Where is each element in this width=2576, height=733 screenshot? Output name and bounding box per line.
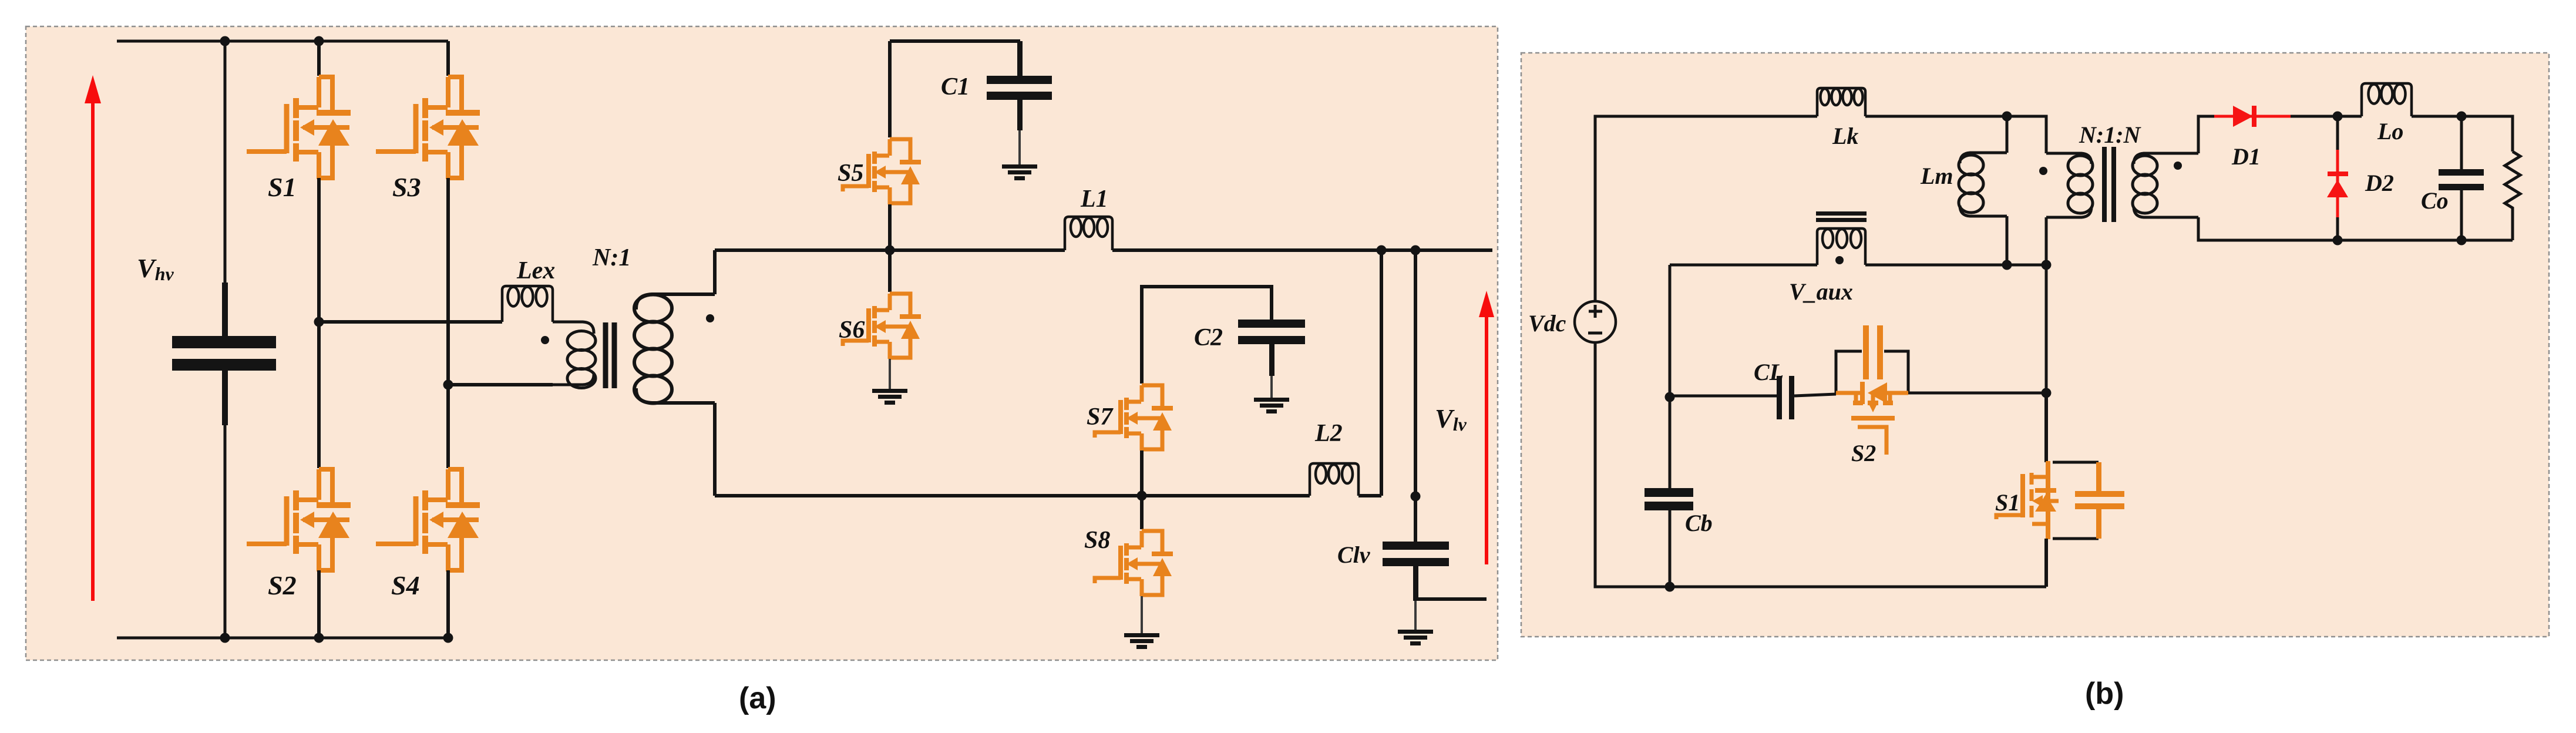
capacitor CL <box>1777 376 1794 419</box>
svg-text:(b): (b) <box>2085 677 2124 711</box>
wire S2 source <box>317 570 321 638</box>
svg-text:S2: S2 <box>268 570 297 600</box>
wire S6 source lead <box>889 359 891 389</box>
transistor S2 loop wires <box>1836 351 1908 394</box>
wire mid node A to Lex <box>319 320 502 324</box>
transformer T1 primary phase dot <box>541 336 549 344</box>
wire S2 right link <box>1908 392 2046 395</box>
node dot primary bottom <box>2042 260 2052 270</box>
capacitor C1 <box>987 41 1052 130</box>
wire C2 ground lead <box>1270 376 1273 398</box>
node dot Co top <box>2457 112 2467 122</box>
wire Co branch bottom <box>2460 190 2463 240</box>
wire Lk to primary <box>1865 116 2046 153</box>
wire Vdc top riser <box>1595 116 1817 301</box>
wire secondary top lead <box>713 250 717 294</box>
svg-text:S5: S5 <box>838 160 863 187</box>
svg-text:L2: L2 <box>1314 420 1343 447</box>
transistor S1 snubber capacitor <box>2075 462 2124 539</box>
wire D2 node to Lo <box>2338 115 2362 118</box>
inductor Lo <box>2362 83 2412 116</box>
svg-text:Lo: Lo <box>2377 118 2403 144</box>
transformer T1 secondary phase dot <box>706 314 714 322</box>
svg-text:Lk: Lk <box>1832 123 1858 149</box>
transformer T2 core <box>2104 147 2114 222</box>
svg-text:C2: C2 <box>1194 324 1223 351</box>
wire Chv rail lower <box>224 371 227 638</box>
inductor L2 <box>1310 463 1358 496</box>
wire CL line <box>1670 394 1836 396</box>
node dot CL tee <box>1665 392 1675 402</box>
wire S8 source lead <box>1141 596 1143 633</box>
node dot Co bottom <box>2457 236 2467 246</box>
transistor S8 <box>1095 531 1173 596</box>
capacitor Clv <box>1383 542 1449 601</box>
wire D1 to D2 node <box>2291 115 2338 118</box>
resistor Ro <box>2505 152 2520 240</box>
inductor Lex <box>502 286 553 322</box>
svg-text:C1: C1 <box>941 73 970 100</box>
transistor S4 <box>376 469 480 571</box>
ground S6 <box>872 389 907 405</box>
capacitor C2 <box>1238 320 1305 376</box>
node dot top S1 <box>314 36 324 46</box>
svg-text:S8: S8 <box>1084 527 1110 554</box>
wire Co branch top <box>2460 116 2463 169</box>
ground S8 <box>1124 633 1159 649</box>
inductor Lk <box>1817 88 1865 116</box>
wire bottom rail <box>117 637 449 640</box>
wire C1 ground lead <box>1018 130 1021 164</box>
wire L2 riser <box>1380 250 1383 496</box>
inductor V_aux core bars <box>1816 211 1867 222</box>
svg-text:S4: S4 <box>391 570 420 600</box>
node dot Lk-Lm <box>2002 112 2012 122</box>
wire V_aux line <box>1670 264 2046 267</box>
svg-text:Lex: Lex <box>516 257 555 284</box>
arrow Vlv <box>1479 291 1494 564</box>
svg-text:S3: S3 <box>392 172 421 202</box>
wire S7 source <box>1140 450 1144 496</box>
wire S5 source <box>888 204 892 250</box>
wire bottom bus <box>715 494 1381 497</box>
capacitor Cb <box>1645 488 1693 510</box>
V_aux phase dot <box>1835 256 1844 264</box>
transformer T1 primary winding <box>553 322 596 388</box>
wire primary bottom lead <box>2045 217 2048 265</box>
wire S1 source <box>2044 539 2048 587</box>
wire top bus <box>715 248 1492 252</box>
transformer T2 primary winding <box>2046 153 2093 217</box>
wire Vdc bottom rail <box>1595 342 2046 587</box>
wire V_aux left riser <box>1669 265 1672 488</box>
transformer T1 core <box>606 322 614 388</box>
svg-text:N:1: N:1 <box>592 244 631 271</box>
svg-text:D2: D2 <box>2365 170 2394 196</box>
svg-text:S2: S2 <box>1851 440 1876 466</box>
wire Lm branch bottom <box>2006 216 2009 265</box>
wire S6 drain <box>888 250 892 292</box>
wire Clv ground lead <box>1414 601 1417 630</box>
wire S1 drain drop <box>2044 393 2048 462</box>
panel (b) background <box>1521 53 2549 637</box>
svg-text:S1: S1 <box>268 172 297 202</box>
wire S5 top <box>890 41 1020 137</box>
node dot bottom S7 <box>1137 491 1147 501</box>
node dot bottom S2 <box>314 633 324 643</box>
node dot mid B <box>443 380 453 390</box>
node dot bottom S4 <box>443 633 453 643</box>
wire mid node B to primary <box>448 383 553 386</box>
wire Lo to Co node and resistor <box>2412 116 2513 152</box>
wire secondary bottom lead <box>2198 217 2513 240</box>
wire S4 source <box>446 570 450 638</box>
capacitor Chv <box>172 283 276 425</box>
wire top rail <box>117 40 448 43</box>
transformer T1 secondary winding <box>634 294 715 404</box>
transistor S7 <box>1095 385 1173 450</box>
node dot mid A <box>314 317 324 327</box>
svg-text:CL: CL <box>1754 359 1784 385</box>
wire S1 drain <box>317 41 321 76</box>
node dot bus Clv <box>1411 246 1421 255</box>
wire Cb riser upper <box>1669 397 1672 488</box>
transformer T2 primary phase dot <box>2039 167 2047 175</box>
transistor S2 <box>1836 382 1908 455</box>
diode D2 <box>2327 150 2348 217</box>
capacitor Co <box>2439 169 2484 190</box>
svg-text:(a): (a) <box>739 681 776 715</box>
svg-text:Co: Co <box>2421 187 2449 214</box>
wire D2 branch <box>2336 116 2339 240</box>
wire S1-S2 link <box>317 178 321 468</box>
inductor L1 <box>1065 217 1112 250</box>
node dot D2 top <box>2333 112 2343 122</box>
ground Clv <box>1398 630 1433 645</box>
transistor S1 snubber loop <box>2053 462 2099 539</box>
wire Chv rail upper <box>224 41 227 336</box>
wire secondary bottom lead <box>713 403 717 496</box>
node dot bus L2 riser <box>1377 246 1387 255</box>
wire secondary top lead <box>2198 116 2220 153</box>
transformer T2 secondary phase dot <box>2174 162 2182 170</box>
wire S2 drop <box>2045 265 2048 393</box>
svg-text:S7: S7 <box>1087 404 1114 431</box>
svg-text:S6: S6 <box>839 317 865 344</box>
node dot D2 bottom <box>2333 236 2343 246</box>
wire S3 drain drop <box>446 41 450 76</box>
node dot bottom rail <box>1665 582 1675 592</box>
arrow Vhv <box>85 75 101 601</box>
node dot bus S5 <box>885 246 895 255</box>
node dot S2 right <box>2042 388 2052 398</box>
svg-text:L1: L1 <box>1080 186 1108 213</box>
svg-text:Clv: Clv <box>1337 542 1371 568</box>
svg-text:Cb: Cb <box>1685 510 1713 536</box>
node dot Clv mid <box>1411 492 1421 502</box>
wire Cb riser lower <box>1669 510 1672 587</box>
transistor S1 <box>247 77 351 179</box>
svg-text:Vdc: Vdc <box>1528 310 1566 337</box>
svg-text:S1: S1 <box>1995 489 2020 516</box>
wire Clv to right <box>1415 597 1487 601</box>
transistor S5 <box>843 139 921 204</box>
wire S3-S4 link <box>446 178 450 468</box>
node dot bottom cap <box>220 633 230 643</box>
transformer T2 secondary winding <box>2133 153 2198 217</box>
transistor S6 <box>843 294 921 359</box>
ground C2 <box>1254 398 1289 413</box>
ground C1 <box>1002 164 1037 180</box>
transistor S3 <box>376 77 480 179</box>
svg-text:Lm: Lm <box>1920 163 1953 189</box>
node dot Lm bottom <box>2002 260 2012 270</box>
diode D1 <box>2214 106 2291 127</box>
svg-text:N:1:N: N:1:N <box>2079 122 2142 148</box>
svg-text:V_aux: V_aux <box>1789 278 1853 305</box>
wire S7 top to C2 <box>1142 287 1272 384</box>
source Vdc <box>1575 301 1616 342</box>
wire Clv branch <box>1414 250 1417 542</box>
panel (a) background <box>26 26 1498 660</box>
inductor Lm <box>1959 153 2007 216</box>
inductor V_aux winding <box>1817 228 1865 265</box>
node dot top cap <box>220 36 230 46</box>
wire S8 drain <box>1140 496 1144 529</box>
transistor S1 <box>1996 461 2059 539</box>
transistor S2 <box>247 469 351 571</box>
wire Lm branch top <box>2006 116 2009 153</box>
svg-text:D1: D1 <box>2231 143 2261 170</box>
transistor S2 snubber capacitor <box>1863 325 1883 379</box>
